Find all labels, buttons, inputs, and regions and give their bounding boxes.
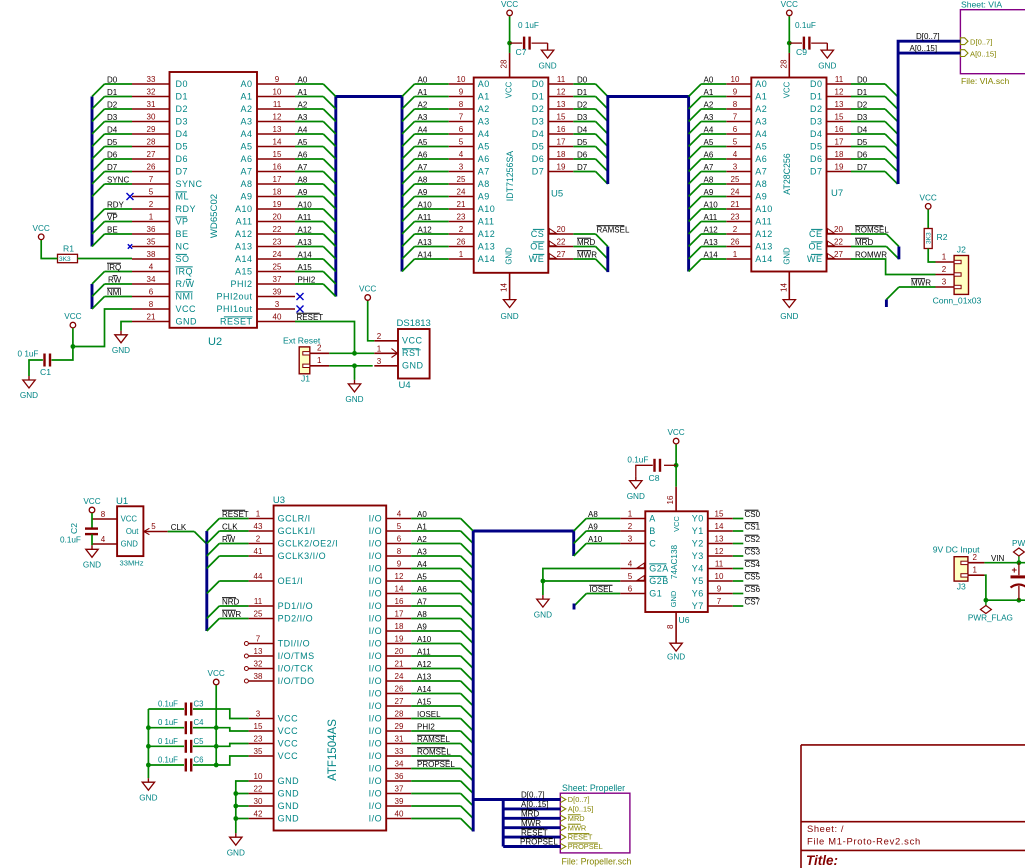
wire A10 (U6): [586, 543, 620, 545]
bus entry A9: [323, 197, 336, 210]
svg-text:J2: J2: [957, 245, 966, 255]
svg-text:G2A: G2A: [649, 563, 669, 573]
wire D4 (U7 right): [851, 133, 885, 135]
wire A8 (U5 left): [415, 183, 449, 185]
bus entry A5 (U7): [689, 147, 702, 160]
bus left of U3: [205, 531, 208, 631]
U3 pin 20 stub: [386, 655, 411, 657]
U2 pin 36 (BE) stub: [132, 233, 170, 235]
junction U3 GND row 23: [233, 804, 238, 809]
U5 CS active-low marker: [549, 229, 556, 234]
J2 pin 1 stub: [936, 261, 955, 263]
wire CLK U1 to bus: [168, 531, 195, 533]
power flag VIN: [1018, 556, 1020, 563]
svg-text:20: 20: [834, 225, 843, 234]
svg-text:A14: A14: [298, 250, 313, 259]
capacitor C7 0.1uF: [524, 37, 530, 50]
junction VCC/C1: [71, 344, 76, 349]
svg-text:40: 40: [273, 313, 282, 322]
svg-text:A3: A3: [298, 113, 308, 122]
wire A0 (U2 right): [295, 83, 323, 85]
bus entry D2 (U5): [596, 109, 608, 122]
J3 pin 1 stub: [968, 574, 985, 576]
U1 pin 8 (VCC) stub: [92, 518, 117, 520]
bus entry U3 row 3: [207, 556, 220, 569]
svg-text:6: 6: [628, 585, 633, 594]
svg-text:A9: A9: [418, 188, 428, 197]
U6 G2A active-low marker: [637, 563, 644, 568]
svg-text:13: 13: [254, 647, 263, 656]
svg-text:A0: A0: [704, 75, 714, 84]
bus entry U3 pin 18: [461, 631, 474, 644]
svg-text:Sheet: Propeller: Sheet: Propeller: [562, 783, 625, 793]
svg-text:File: VIA.sch: File: VIA.sch: [961, 76, 1009, 86]
U3 pin 7 (TDI/I/O) stub: [249, 643, 274, 645]
svg-text:GND: GND: [667, 653, 685, 662]
svg-text:CLK: CLK: [222, 522, 238, 531]
wire RESET from U2 to DS1813: [295, 322, 355, 354]
svg-text:A11: A11: [478, 216, 495, 226]
svg-text:GND: GND: [500, 312, 518, 321]
svg-text:I/O/TCK: I/O/TCK: [278, 663, 314, 673]
U3 pin 32 (I/O/TCK) stub: [249, 668, 274, 670]
svg-text:C8: C8: [649, 473, 660, 483]
svg-text:A4: A4: [298, 125, 308, 134]
svg-text:4: 4: [397, 510, 402, 519]
ground (C8): [627, 477, 645, 501]
svg-text:A14: A14: [755, 254, 773, 264]
svg-text:2: 2: [377, 332, 382, 341]
wire U3 pin 9: [411, 568, 461, 570]
svg-text:D6: D6: [176, 154, 189, 164]
svg-text:A0: A0: [755, 79, 767, 89]
svg-text:13: 13: [835, 100, 844, 109]
bus entry D2: [92, 109, 105, 122]
svg-text:A14: A14: [478, 254, 496, 264]
svg-text:CS1: CS1: [745, 522, 761, 531]
bus entry A2: [323, 109, 336, 122]
U7 pin 20 (CE) stub: [827, 233, 852, 235]
junction GND rail C6: [146, 763, 151, 768]
svg-text:A11: A11: [236, 216, 253, 226]
svg-text:RAMSEL: RAMSEL: [597, 225, 630, 234]
svg-text:17: 17: [273, 175, 282, 184]
bus D[0..7] to VIA sheet: [898, 41, 960, 184]
svg-text:A10: A10: [588, 535, 603, 544]
bus entry U3 row 8: [207, 619, 220, 632]
bus entry D3: [92, 122, 105, 135]
wire VCC to R2: [927, 210, 929, 229]
svg-text:A: A: [649, 513, 656, 523]
bus entry D1 (U7): [885, 97, 898, 110]
bus entry A12 (U5): [402, 234, 415, 247]
svg-text:D4: D4: [107, 125, 118, 134]
svg-text:15: 15: [254, 722, 263, 731]
J1 pin 2 stub: [310, 352, 330, 354]
svg-text:A13: A13: [704, 238, 719, 247]
svg-text:I/O: I/O: [369, 763, 383, 773]
wire D7 (U7 right): [851, 171, 885, 173]
svg-text:WD65C02: WD65C02: [209, 194, 220, 238]
svg-text:23: 23: [457, 213, 466, 222]
svg-text:D5: D5: [810, 141, 823, 151]
svg-text:A[0..15]: A[0..15]: [970, 49, 996, 58]
power VCC (U3): [208, 669, 225, 685]
capacitor C6 0.1uF: [186, 759, 191, 772]
svg-text:16: 16: [666, 495, 675, 504]
svg-text:NMI: NMI: [107, 288, 122, 297]
svg-text:J1: J1: [301, 374, 310, 384]
U7 pin 10 (A0) stub: [726, 83, 751, 85]
svg-text:A1: A1: [298, 88, 308, 97]
svg-text:33: 33: [147, 75, 156, 84]
svg-text:8: 8: [397, 547, 402, 556]
bus entry D5 (U5): [596, 147, 608, 160]
svg-text:26: 26: [147, 163, 156, 172]
svg-text:D4: D4: [857, 125, 868, 134]
wire MWR (U5): [573, 258, 595, 260]
U3 pin 16 stub: [386, 605, 411, 607]
wire D0 (U2 left): [105, 83, 133, 85]
svg-text:24: 24: [273, 250, 282, 259]
bus entry A11 (U7): [689, 222, 702, 235]
wire U3 pin 5: [411, 530, 461, 532]
svg-text:19: 19: [273, 200, 282, 209]
wire A12 (U7 left): [701, 233, 726, 235]
wire A9 (U6): [586, 530, 620, 532]
svg-text:25: 25: [254, 610, 263, 619]
svg-text:PHI2: PHI2: [298, 275, 316, 284]
U3 pin 13 open end: [244, 654, 248, 658]
svg-text:VCC: VCC: [501, 0, 518, 9]
svg-text:D[0..7]: D[0..7]: [970, 38, 992, 47]
svg-text:A10: A10: [418, 200, 433, 209]
wire A7 (U7 left): [701, 171, 726, 173]
svg-text:A10: A10: [235, 204, 253, 214]
wire U3 pin 28: [411, 718, 461, 720]
svg-text:A4: A4: [704, 125, 714, 134]
bus entry RDY: [92, 209, 105, 222]
wire U3 pin 26: [411, 693, 461, 695]
svg-text:U1: U1: [116, 496, 128, 507]
svg-text:8: 8: [733, 100, 738, 109]
sheet pin A[0..15] (VIA): [960, 50, 968, 57]
svg-text:1: 1: [733, 250, 738, 259]
wire CS6: [733, 593, 744, 595]
svg-text:D6: D6: [810, 154, 823, 164]
svg-text:PROPSEL: PROPSEL: [520, 838, 558, 847]
U7 pin 1 (A14) stub: [726, 258, 751, 260]
U7 pin 6 (A4) stub: [726, 133, 751, 135]
svg-text:1: 1: [628, 510, 633, 519]
wire J1 pin2 to U4 RST: [329, 352, 374, 354]
U7 pin 19 (D7) stub: [827, 171, 852, 173]
svg-text:A0: A0: [417, 510, 427, 519]
svg-text:PHI2out: PHI2out: [216, 291, 252, 301]
wire A9 (U2 right): [295, 196, 323, 198]
bus entry A13: [323, 247, 336, 260]
svg-text:A5: A5: [298, 138, 308, 147]
svg-text:C5: C5: [194, 737, 205, 746]
wire RDY (U2 left): [105, 208, 133, 210]
wire A13 (U7 left): [701, 246, 726, 248]
svg-text:39: 39: [395, 797, 404, 806]
wire U3 row 3: [219, 555, 248, 557]
svg-text:13: 13: [273, 125, 282, 134]
svg-text:GND: GND: [534, 610, 552, 619]
svg-text:GND: GND: [227, 848, 245, 857]
svg-text:D3: D3: [176, 116, 189, 126]
wire A13 (U5 left): [415, 246, 449, 248]
svg-text:A2: A2: [298, 100, 308, 109]
svg-text:A6: A6: [755, 154, 767, 164]
svg-text:35: 35: [254, 747, 263, 756]
U2 pin 32 (D1) stub: [132, 96, 170, 98]
J2 pin 2 stub: [936, 274, 955, 276]
svg-text:A14: A14: [418, 250, 433, 259]
wire U3 pin 40: [411, 818, 461, 820]
svg-text:A1: A1: [418, 88, 428, 97]
svg-text:A3: A3: [240, 116, 252, 126]
wire A5 (U2 right): [295, 146, 323, 148]
U3 pin 7 open end: [244, 642, 248, 646]
svg-text:+: +: [1012, 565, 1018, 576]
svg-text:VCC: VCC: [121, 515, 138, 524]
U5 pin 2 (A12) stub: [449, 233, 474, 235]
bus D/A between U5 and U7: [608, 97, 689, 272]
bus entry VP: [92, 222, 105, 235]
U6 pin 8 GND stub: [675, 612, 677, 643]
svg-text:0 1uF: 0 1uF: [158, 718, 178, 727]
bus entry MRD (U7): [886, 247, 899, 260]
bus A[0..15] U2-U5: [336, 97, 402, 297]
wire C6 left lead: [148, 764, 184, 766]
U2 pin 23 (A13) stub: [257, 246, 295, 248]
U7 pin 17 (D5) stub: [827, 146, 852, 148]
svg-text:17: 17: [557, 138, 566, 147]
U7 pin 12 (D1) stub: [827, 96, 852, 98]
U3 pin 27 stub: [386, 705, 411, 707]
svg-text:D2: D2: [810, 104, 823, 114]
svg-text:29: 29: [147, 125, 156, 134]
U2 pin 40 (RESET) stub: [257, 321, 295, 323]
svg-text:A6: A6: [298, 150, 308, 159]
svg-text:A15: A15: [417, 697, 432, 706]
wire CS1: [733, 530, 744, 532]
wire D6 (U5 right): [573, 158, 595, 160]
svg-text:GND: GND: [278, 801, 300, 811]
svg-text:24: 24: [395, 672, 404, 681]
svg-text:ROMWR: ROMWR: [855, 250, 887, 259]
bus entry U3 row 0: [207, 519, 220, 532]
bus entry A12: [323, 234, 336, 247]
U5 pin 14 GND stub: [509, 273, 511, 300]
bus entry A6 (U5): [402, 159, 415, 172]
capacitor C3 0.1uF: [186, 703, 191, 716]
svg-text:D[0..7]: D[0..7]: [521, 791, 545, 800]
svg-text:35: 35: [147, 238, 156, 247]
bus entry A3 (U7): [689, 122, 702, 135]
U3 pin 19 stub: [386, 643, 411, 645]
bus entry U3 pin 24: [461, 681, 474, 694]
bus entry A8 (U7): [689, 184, 702, 197]
svg-text:A6: A6: [240, 154, 252, 164]
sheet pin MWR (Propeller): [560, 825, 566, 831]
bus entry D1 (U5): [596, 97, 608, 110]
svg-text:I/O: I/O: [369, 651, 383, 661]
svg-text:11: 11: [835, 75, 844, 84]
bus entry D0 (U5): [596, 84, 608, 97]
bus entry A1 (U5): [402, 97, 415, 110]
svg-text:A10: A10: [478, 204, 496, 214]
wire U3 pin 8: [411, 555, 461, 557]
bus entry U3 pin 37: [461, 794, 474, 807]
svg-text:A12: A12: [478, 229, 496, 239]
svg-text:VCC: VCC: [278, 713, 299, 723]
wire A3 (U5 left): [415, 121, 449, 123]
bus entry D7 (U5): [596, 172, 608, 185]
svg-text:25: 25: [731, 175, 740, 184]
junction RESET/J1: [352, 351, 357, 356]
svg-text:38: 38: [254, 672, 263, 681]
svg-text:14: 14: [779, 283, 788, 292]
bus entry A10 (U7): [689, 209, 702, 222]
U2 pin 6 (NMI) stub: [132, 296, 170, 298]
svg-text:VIN: VIN: [991, 554, 1005, 563]
svg-text:A3: A3: [417, 547, 427, 556]
wire A9 (U5 left): [415, 196, 449, 198]
svg-text:VCC: VCC: [208, 669, 225, 678]
U5 pin 20 (CS) stub: [548, 233, 573, 235]
bus entry D4 (U5): [596, 134, 608, 147]
svg-text:34: 34: [395, 760, 404, 769]
svg-text:12: 12: [835, 88, 844, 97]
svg-text:23: 23: [273, 238, 282, 247]
wire GND rail (power): [986, 599, 1025, 601]
ground (C9): [818, 43, 836, 70]
svg-text:32: 32: [147, 88, 156, 97]
svg-text:44: 44: [254, 572, 263, 581]
U3 pin 26 stub: [386, 693, 411, 695]
svg-text:D4: D4: [577, 125, 588, 134]
svg-text:GND: GND: [83, 561, 101, 570]
wire A12 (U5 left): [415, 233, 449, 235]
svg-text:GND: GND: [176, 316, 198, 326]
U2 pin 10 (A1) stub: [257, 96, 295, 98]
svg-text:Y0: Y0: [692, 513, 704, 523]
wire D4 (U2 left): [105, 133, 133, 135]
U1 pin 4 (GND) stub: [92, 543, 117, 545]
svg-text:D5: D5: [532, 141, 545, 151]
wire U3 row 8: [219, 618, 248, 620]
svg-text:5: 5: [397, 522, 402, 531]
bus entry U3 pin 28: [461, 719, 474, 732]
wire MRD (U5): [573, 246, 595, 248]
junction VCC rail C4: [214, 725, 219, 730]
U3 pin 17 stub: [386, 618, 411, 620]
ground (U7): [783, 300, 795, 308]
wire A1 (U5 left): [415, 96, 449, 98]
U4 pin 2 (VCC) stub: [374, 340, 398, 342]
svg-text:RDY: RDY: [176, 204, 197, 214]
bus entry A5 (U5): [402, 147, 415, 160]
svg-text:D1: D1: [176, 91, 189, 101]
bus entry D4: [92, 134, 105, 147]
svg-text:I/O: I/O: [369, 688, 383, 698]
svg-text:2: 2: [972, 553, 977, 562]
svg-text:A6: A6: [704, 150, 714, 159]
wire ROMWR U7 to J2 pin2: [851, 259, 936, 275]
svg-text:8: 8: [459, 100, 464, 109]
junction VCC rail C5: [214, 744, 219, 749]
svg-text:SYNC: SYNC: [107, 175, 129, 184]
wire C1 left lead: [29, 360, 43, 376]
svg-text:A11: A11: [704, 213, 718, 222]
svg-text:2: 2: [317, 344, 322, 353]
svg-text:Y5: Y5: [692, 576, 704, 586]
U5 pin 7 (A3) stub: [449, 121, 474, 123]
svg-text:18: 18: [273, 188, 282, 197]
bus entry D2 (U7): [885, 109, 898, 122]
J1 pin 1 stub: [310, 365, 330, 367]
svg-text:17: 17: [395, 610, 404, 619]
svg-text:D[0..7]: D[0..7]: [568, 795, 590, 804]
svg-text:34: 34: [147, 275, 156, 284]
svg-text:21: 21: [147, 313, 156, 322]
U2 pin 2 (RDY) stub: [132, 208, 170, 210]
svg-text:A9: A9: [755, 191, 767, 201]
wire D0 (U7 right): [851, 83, 885, 85]
wire D1 (U5 right): [573, 96, 595, 98]
svg-text:GCLK2/OE2/I: GCLK2/OE2/I: [278, 538, 339, 548]
svg-text:A0: A0: [418, 75, 428, 84]
U5 pin 15 (D3) stub: [548, 121, 573, 123]
svg-text:A11: A11: [755, 216, 772, 226]
wire VCC to U5 pin 28: [509, 16, 511, 53]
svg-text:7: 7: [733, 113, 738, 122]
svg-text:VCC: VCC: [505, 81, 514, 98]
bus entry A6: [323, 159, 336, 172]
svg-text:Sheet: /: Sheet: /: [807, 823, 844, 834]
wire U3 pin 21: [411, 668, 461, 670]
U3 pin 38 (I/O/TDO) stub: [249, 680, 274, 682]
wire A13 (U2 right): [295, 246, 323, 248]
svg-text:3K3: 3K3: [59, 256, 71, 263]
svg-text:PHI2: PHI2: [230, 279, 252, 289]
svg-text:A13: A13: [417, 672, 432, 681]
U6 pin 3 (C) stub: [620, 543, 645, 545]
svg-text:GND: GND: [627, 492, 645, 501]
svg-text:D7: D7: [577, 163, 588, 172]
svg-text:19: 19: [557, 163, 566, 172]
U2 pin 27 (D6) stub: [132, 158, 170, 160]
power VCC (U1): [83, 497, 100, 513]
svg-text:A4: A4: [418, 125, 428, 134]
bus entry A14: [323, 259, 336, 272]
svg-text:10: 10: [273, 88, 282, 97]
svg-text:VCC: VCC: [667, 428, 684, 437]
svg-text:D1: D1: [857, 88, 868, 97]
bus MWR to Propeller: [503, 826, 560, 829]
U3 pin 32 open end: [244, 667, 248, 671]
hierarchical sheet Propeller: [560, 783, 631, 867]
svg-text:3: 3: [256, 710, 261, 719]
svg-text:10: 10: [731, 75, 740, 84]
svg-text:I/O: I/O: [369, 613, 383, 623]
svg-text:0 1uF: 0 1uF: [18, 350, 39, 359]
wire U6 G2A to GND: [543, 569, 620, 596]
svg-text:2: 2: [459, 225, 464, 234]
